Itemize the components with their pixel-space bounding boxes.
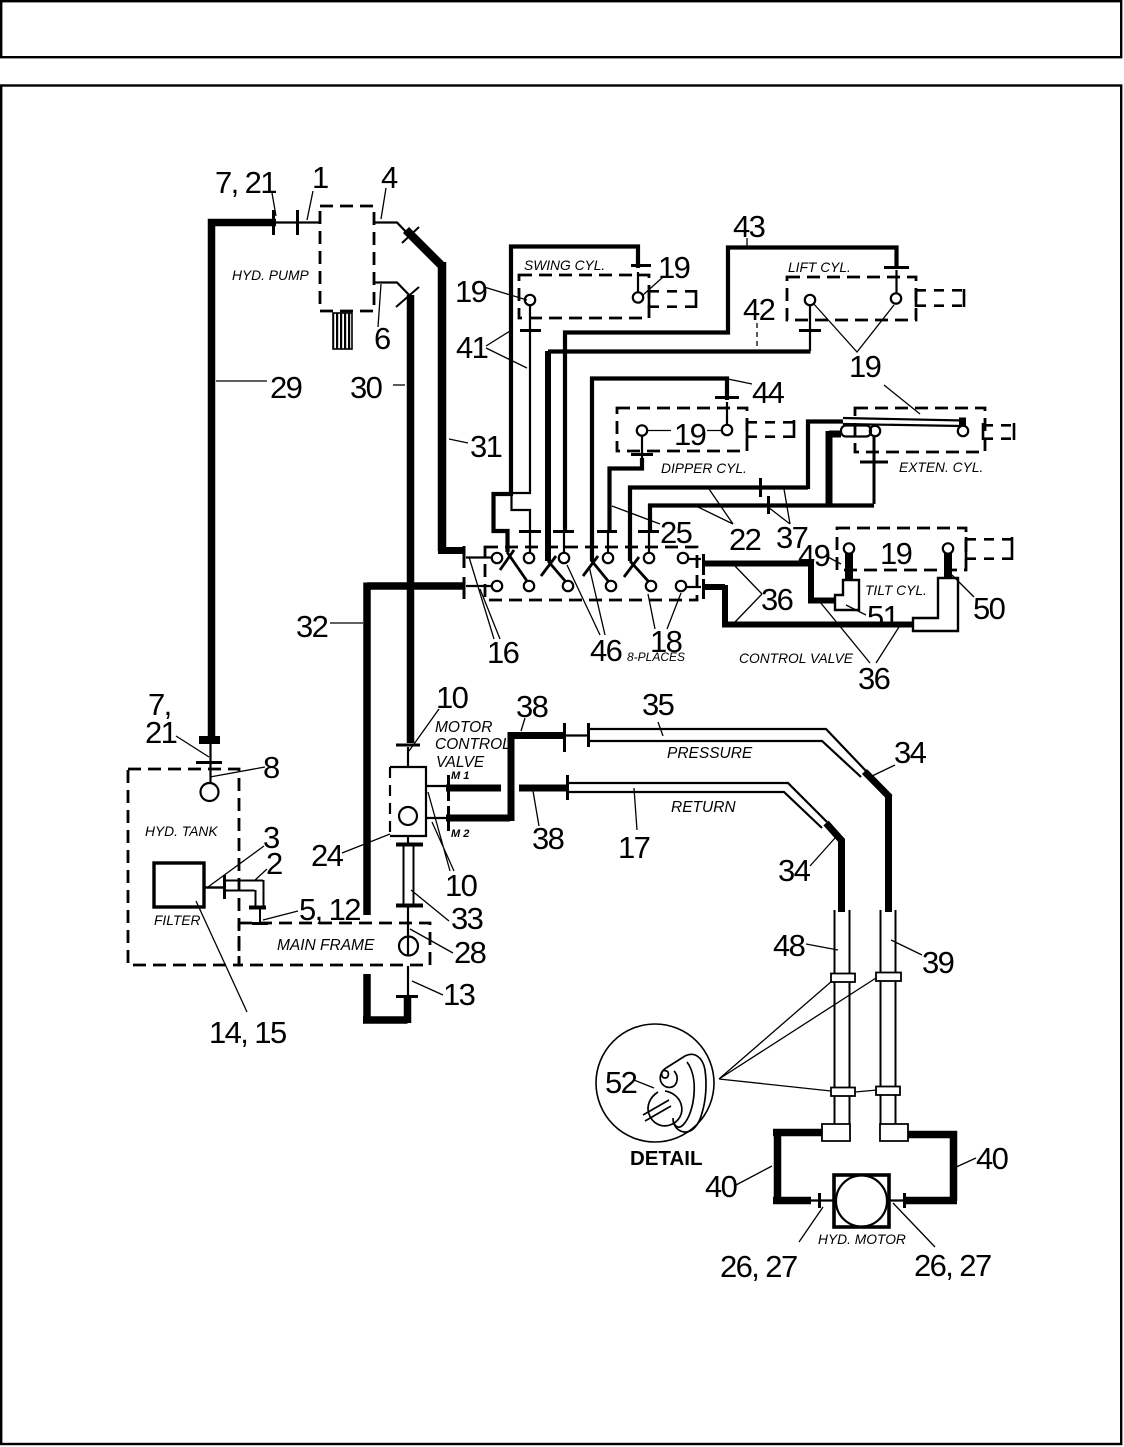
- svg-text:19: 19: [674, 417, 706, 452]
- svg-text:CONTROL: CONTROL: [435, 736, 511, 753]
- svg-text:50: 50: [973, 591, 1006, 626]
- svg-text:19: 19: [658, 250, 690, 285]
- svg-text:39: 39: [922, 945, 954, 980]
- svg-text:17: 17: [618, 830, 650, 865]
- svg-text:42: 42: [743, 292, 775, 327]
- svg-text:2: 2: [266, 846, 282, 881]
- svg-text:8-PLACES: 8-PLACES: [627, 650, 685, 664]
- svg-text:19: 19: [455, 274, 487, 309]
- svg-text:19: 19: [880, 536, 912, 571]
- svg-text:52: 52: [605, 1065, 637, 1100]
- svg-text:SWING CYL.: SWING CYL.: [524, 258, 605, 273]
- svg-text:26, 27: 26, 27: [914, 1248, 991, 1283]
- svg-text:7, 21: 7, 21: [215, 165, 276, 200]
- svg-text:33: 33: [451, 901, 483, 936]
- svg-text:41: 41: [456, 330, 488, 365]
- svg-text:22: 22: [729, 522, 761, 557]
- svg-text:25: 25: [660, 515, 692, 550]
- svg-text:HYD. MOTOR: HYD. MOTOR: [818, 1232, 906, 1247]
- svg-text:34: 34: [894, 735, 927, 770]
- svg-text:36: 36: [761, 582, 793, 617]
- svg-text:36: 36: [858, 661, 890, 696]
- svg-text:40: 40: [705, 1169, 738, 1204]
- svg-text:MAIN FRAME: MAIN FRAME: [277, 937, 375, 954]
- svg-text:1: 1: [312, 160, 328, 195]
- svg-text:14, 15: 14, 15: [209, 1015, 286, 1050]
- svg-text:PRESSURE: PRESSURE: [667, 745, 753, 762]
- svg-text:44: 44: [752, 375, 785, 410]
- svg-text:5, 12: 5, 12: [299, 892, 360, 927]
- svg-text:MOTOR: MOTOR: [435, 719, 492, 736]
- svg-text:31: 31: [470, 429, 502, 464]
- svg-text:34: 34: [778, 853, 811, 888]
- svg-text:DETAIL: DETAIL: [630, 1147, 703, 1170]
- svg-text:LIFT CYL.: LIFT CYL.: [788, 260, 851, 275]
- svg-text:21: 21: [145, 715, 177, 750]
- svg-text:48: 48: [773, 928, 805, 963]
- svg-text:40: 40: [976, 1141, 1009, 1176]
- svg-text:26, 27: 26, 27: [720, 1249, 797, 1284]
- svg-text:M 2: M 2: [451, 828, 469, 840]
- svg-text:CONTROL VALVE: CONTROL VALVE: [739, 651, 854, 666]
- svg-text:43: 43: [733, 209, 765, 244]
- svg-text:EXTEN. CYL.: EXTEN. CYL.: [899, 460, 983, 475]
- svg-text:HYD. PUMP: HYD. PUMP: [232, 268, 309, 283]
- svg-text:38: 38: [516, 689, 548, 724]
- svg-text:30: 30: [350, 370, 383, 405]
- svg-text:4: 4: [381, 160, 398, 195]
- svg-text:28: 28: [454, 935, 486, 970]
- svg-text:DIPPER CYL.: DIPPER CYL.: [661, 461, 747, 476]
- svg-text:HYD. TANK: HYD. TANK: [145, 824, 218, 839]
- svg-text:29: 29: [270, 370, 302, 405]
- svg-text:16: 16: [487, 635, 519, 670]
- svg-text:8: 8: [263, 750, 279, 785]
- svg-text:19: 19: [849, 349, 881, 384]
- svg-text:10: 10: [436, 680, 469, 715]
- svg-text:RETURN: RETURN: [671, 799, 736, 816]
- svg-text:13: 13: [443, 977, 475, 1012]
- svg-text:M 1: M 1: [451, 770, 469, 782]
- svg-text:10: 10: [445, 868, 478, 903]
- svg-text:32: 32: [296, 609, 328, 644]
- svg-text:38: 38: [532, 821, 564, 856]
- svg-text:35: 35: [642, 687, 674, 722]
- svg-text:TILT CYL.: TILT CYL.: [865, 583, 927, 598]
- svg-text:6: 6: [374, 321, 390, 356]
- svg-text:51: 51: [867, 599, 899, 634]
- svg-text:FILTER: FILTER: [154, 913, 201, 928]
- svg-text:46: 46: [590, 633, 622, 668]
- svg-text:VALVE: VALVE: [436, 754, 485, 771]
- svg-text:49: 49: [798, 538, 830, 573]
- svg-text:24: 24: [311, 838, 344, 873]
